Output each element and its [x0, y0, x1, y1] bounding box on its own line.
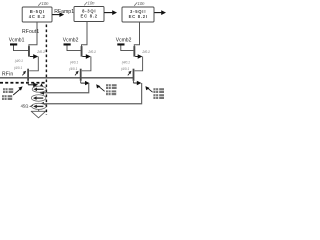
ground: [38, 109, 40, 111]
svg-text:RFin: RFin: [2, 72, 13, 78]
svg-text:2/0.1: 2/0.1: [141, 50, 150, 54]
svg-text:(4/0.1: (4/0.1: [122, 60, 130, 64]
stage3 source return wire: [132, 81, 134, 83]
wire Q1 source to Q2 drain: [29, 57, 38, 71]
svg-text:Vcmb2: Vcmb2: [116, 38, 132, 44]
svg-text:EC 8.2I: EC 8.2I: [129, 14, 148, 19]
annotation C arrow: [148, 88, 153, 92]
bias terminal bar: [10, 43, 17, 45]
transistor Q5 (common-gate, upper): [133, 46, 135, 57]
inductor value label L3 above box U3: [134, 2, 137, 5]
output arrow of U1: [52, 14, 60, 16]
annotation B: mid label (Korean): [106, 84, 117, 95]
svg-text:10n: 10n: [42, 1, 50, 6]
stage boundary dashed line: [45, 25, 47, 116]
coil turn 3: [32, 103, 46, 109]
inductor value label L1 above box U1: [38, 2, 41, 5]
transistor Q1 (common-gate, upper): [28, 46, 30, 57]
svg-text:4C 8.2: 4C 8.2: [29, 14, 46, 19]
block U3 tuned-load stage 3: [122, 7, 154, 22]
wire U3 to Q5 drain: [134, 22, 139, 46]
transistor Q3 (common-gate, upper): [81, 46, 83, 57]
common node rail RFin: [0, 77, 134, 79]
svg-text:EC 8.2: EC 8.2: [81, 14, 98, 19]
annotation B arrow: [99, 87, 104, 92]
svg-text:(4/0.1: (4/0.1: [14, 66, 22, 70]
output arrow of U2: [104, 12, 112, 14]
output arrow of U3: [154, 12, 161, 14]
block U1 tuned-load stage 1: [22, 7, 52, 22]
svg-text:Vcmb1: Vcmb1: [9, 38, 25, 44]
stage 3 transistors: [117, 43, 150, 80]
svg-text:Vcmb2: Vcmb2: [63, 38, 79, 44]
annotation C: output label (Korean): [153, 88, 164, 99]
inductor value label L2 above box U2: [84, 2, 87, 5]
wire bias to Q1 gate: [14, 46, 29, 51]
svg-text:RFamp1: RFamp1: [54, 9, 74, 15]
block U2 tuned-load stage 2: [74, 7, 104, 22]
wire U2 to Q3 drain: [82, 22, 88, 47]
stage 1 transistors: [10, 43, 45, 80]
svg-text:(4/0.1: (4/0.1: [15, 59, 23, 63]
wire U1 to Q1 drain: [29, 22, 37, 46]
annotation A: input label (Korean): [2, 88, 13, 100]
transistor Q2 (common-source, lower): [27, 69, 29, 81]
gate arrow Q2: [22, 73, 24, 76]
svg-text:2/0.1: 2/0.1: [36, 50, 45, 54]
transistor Q4 (common-source, lower): [80, 69, 82, 81]
transistor Q6 (common-source, lower): [133, 69, 135, 81]
svg-text:10n: 10n: [88, 0, 96, 5]
svg-text:10n: 10n: [138, 1, 146, 6]
svg-text:2/0.1: 2/0.1: [87, 50, 96, 54]
return arrowhead into coil (stage2 path): [39, 91, 44, 95]
svg-text:(4/0.1: (4/0.1: [121, 67, 129, 71]
svg-text:(4/0.1: (4/0.1: [69, 67, 77, 71]
stage1 source path with arrow into coil: [27, 81, 29, 85]
svg-text:45Ω: 45Ω: [21, 103, 29, 108]
return arrowhead into coil (stage3 path): [39, 102, 44, 106]
svg-text:(4/0.1: (4/0.1: [70, 60, 78, 64]
annotation A arrow: [13, 89, 20, 95]
stage2 source return wire: [80, 81, 82, 83]
stage 2 transistors: [64, 43, 97, 80]
dashed input path annotation: [0, 82, 45, 84]
coil turn 2: [31, 95, 46, 101]
coil turn 1: [32, 86, 46, 92]
